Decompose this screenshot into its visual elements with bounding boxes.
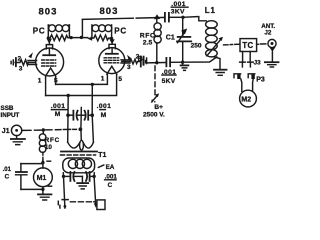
junction dot at PC left output <box>47 36 50 39</box>
svg-text:.01: .01 <box>3 167 12 173</box>
junction dot primary left <box>62 175 65 178</box>
svg-text:PC: PC <box>33 27 46 36</box>
tube V1 grid leads entering left <box>28 61 37 65</box>
wire lower filament rail <box>46 75 117 96</box>
capacitor .01 across M1 <box>16 164 27 190</box>
dashed link tap to TC <box>224 43 239 46</box>
svg-text:TC: TC <box>242 41 253 50</box>
connector J1 <box>11 125 23 135</box>
variable capacitor C1 <box>177 17 191 62</box>
tube V1 (803) envelope <box>36 48 64 76</box>
capacitor .001 3KV (plate blocking) <box>165 13 183 22</box>
svg-text:5: 5 <box>118 76 122 83</box>
wire joining both plates <box>71 37 88 39</box>
junction dot upper rail <box>91 83 94 86</box>
label .001 M (right) <box>97 103 112 119</box>
coupler box TC <box>240 39 257 52</box>
wire T1 primary right lead <box>93 173 95 177</box>
arrow pointing to B plus feed <box>151 93 159 102</box>
meter M2 <box>240 90 257 107</box>
svg-text:2: 2 <box>18 55 22 62</box>
wire AC lead right <box>94 176 96 203</box>
svg-text:B: B <box>138 56 143 63</box>
ground (rotated) at V1 grid <box>11 58 16 66</box>
ground at line filter <box>77 176 88 189</box>
wire M1 top branch <box>21 160 43 168</box>
tube V2 plate <box>106 49 118 54</box>
svg-text:1: 1 <box>101 76 105 83</box>
capacitor .001 M right <box>85 111 93 120</box>
plug P3 <box>234 74 255 92</box>
wire V1 plate to PC left <box>48 38 49 41</box>
grid choke RFC 10 <box>39 130 46 160</box>
svg-text:3KV: 3KV <box>171 9 185 16</box>
wire cap row right to T1 <box>92 115 93 142</box>
svg-text:M1: M1 <box>37 175 47 182</box>
wire center feed to T1 tap <box>80 108 82 141</box>
svg-text:C: C <box>108 182 113 189</box>
label .001 (filter) <box>105 174 118 181</box>
svg-text:J1: J1 <box>2 128 10 135</box>
parasitic choke PC left (coil + resistor) <box>48 25 69 41</box>
feedthrough terminal B plus <box>138 56 147 65</box>
polarity mark plus <box>47 160 51 162</box>
svg-text:L1: L1 <box>205 6 216 15</box>
label SSB INPUT <box>1 105 20 119</box>
label .001 M (left) <box>51 103 67 118</box>
wires TC to jack J3 <box>243 52 251 62</box>
svg-text:EA: EA <box>106 164 115 171</box>
wire L1 bottom to ground <box>214 57 220 69</box>
L1 tap arrow <box>207 37 223 56</box>
AC terminal marks <box>58 200 68 208</box>
label .001 5KV <box>162 69 177 85</box>
junction dot at PC right output <box>110 37 113 40</box>
svg-text:803: 803 <box>39 7 58 18</box>
capacitor .001 M left <box>68 111 85 120</box>
wire V1 pin1 down <box>45 76 47 96</box>
arrow to V1 plate cap <box>47 39 52 44</box>
transformer T1 secondary (filament winding) <box>68 140 94 150</box>
arrow at PC right input <box>87 37 92 41</box>
junction dot plate bus A <box>70 36 73 39</box>
arrow to V2 plate cap <box>109 39 114 44</box>
transformer T1 primary <box>63 158 95 173</box>
wire B plus line <box>147 62 165 64</box>
ground at J2 (wedge + bars) <box>265 47 279 67</box>
wire M1 bottom <box>21 187 43 194</box>
ground at L1 bottom <box>214 70 227 76</box>
ground at bypass junction <box>181 62 189 70</box>
AC plug box <box>97 200 105 210</box>
wire AC lead left <box>64 176 65 208</box>
junction dot at M1 top <box>41 161 44 164</box>
wire cap row left to T1 <box>67 115 69 142</box>
ground at J1 <box>11 136 25 145</box>
meter M1 <box>34 168 53 187</box>
svg-text:RFC: RFC <box>45 137 60 144</box>
wire upper filament rail <box>56 75 108 85</box>
tube V1 plate <box>43 49 55 55</box>
svg-text:B+: B+ <box>154 104 163 111</box>
svg-text:T1: T1 <box>98 152 106 159</box>
arrow to filter caps <box>98 165 103 167</box>
line filter capacitor left <box>64 172 83 181</box>
wire V1 pin5 down <box>55 76 57 84</box>
svg-text:M: M <box>55 111 61 118</box>
junction dot cap row right <box>90 113 94 117</box>
wire upper rail to cap row <box>91 84 93 115</box>
wire top rail to tank <box>82 17 164 19</box>
junction dot plate bus B <box>80 36 83 39</box>
tube V1 grids (dashed) <box>42 60 56 66</box>
svg-text:M2: M2 <box>241 96 251 103</box>
resistor (suppressor) at V1 grid <box>15 60 28 65</box>
junction dot tank top <box>181 16 184 19</box>
wire lower rail to cap row <box>67 96 69 116</box>
svg-text:PC: PC <box>114 27 127 36</box>
ground at M1 <box>38 194 51 200</box>
polarity mark minus <box>48 185 51 187</box>
junction dot input at cathode feed <box>79 127 83 131</box>
tube V1 cathode <box>46 68 56 76</box>
jack J3 <box>240 62 254 67</box>
junction dot input at RFC <box>42 128 45 131</box>
capacitor .001 5KV (bypass) <box>166 58 182 66</box>
svg-text:M: M <box>101 112 107 119</box>
svg-text:J2: J2 <box>264 29 272 36</box>
svg-text:803: 803 <box>100 6 119 17</box>
junction dot RFC bottom <box>155 61 158 64</box>
dashed AC line <box>70 201 95 203</box>
dashed input line <box>24 129 76 130</box>
svg-text:3: 3 <box>127 64 131 71</box>
svg-text:10: 10 <box>45 144 53 151</box>
svg-text:2500 V.: 2500 V. <box>143 112 165 119</box>
tube V1 grid arrow <box>28 52 33 58</box>
arrow into AC plug <box>94 203 98 208</box>
wire T1 primary left lead <box>62 173 64 177</box>
junction dot bypass/ground <box>181 61 184 64</box>
dashed link TC to J2 <box>257 43 266 45</box>
junction dot M1 bottom <box>41 188 44 191</box>
tube V2 grid arrow <box>127 55 132 60</box>
svg-text:1: 1 <box>38 77 42 84</box>
inductor L1 <box>206 21 218 57</box>
connector J2 <box>268 39 276 47</box>
dashed feed line to B plus label <box>154 66 156 96</box>
tube V1 plate cap <box>46 41 52 49</box>
junction dot cap row left <box>66 113 70 117</box>
tube V2 (803) envelope <box>99 48 125 74</box>
tube V2 grid leads exiting right <box>121 60 130 63</box>
tube V2 grids (dashed) <box>104 58 118 63</box>
svg-text:J3: J3 <box>254 60 262 67</box>
wire tank top to L1 <box>183 17 206 21</box>
svg-text:INPUT: INPUT <box>1 112 20 119</box>
ground (rotated) at V2 grid <box>141 57 146 67</box>
svg-text:C: C <box>5 174 10 181</box>
svg-text:250: 250 <box>191 42 202 49</box>
svg-text:2.5: 2.5 <box>143 39 153 46</box>
tube V2 cathode <box>107 66 117 74</box>
junction dot primary right <box>92 175 95 178</box>
svg-text:5KV: 5KV <box>162 78 176 85</box>
line filter capacitor right <box>86 172 94 181</box>
label .001 3KV <box>171 1 188 15</box>
wire ground line to L1 bottom <box>183 57 217 62</box>
junction dot lower rail <box>67 94 70 97</box>
parasitic choke PC right (coil + resistor) <box>92 25 112 41</box>
tube V2 plate cap <box>109 41 115 49</box>
svg-text:C1: C1 <box>166 34 175 41</box>
svg-text:3: 3 <box>19 66 23 73</box>
plate choke RFC 2.5 <box>154 19 161 63</box>
wire plate bus riser <box>81 19 83 37</box>
transformer T1 core <box>61 152 98 156</box>
svg-text:P3: P3 <box>256 77 265 84</box>
RFC junction arrow on rail <box>154 14 160 19</box>
resistor (suppressor) at V2 grid <box>130 59 141 64</box>
